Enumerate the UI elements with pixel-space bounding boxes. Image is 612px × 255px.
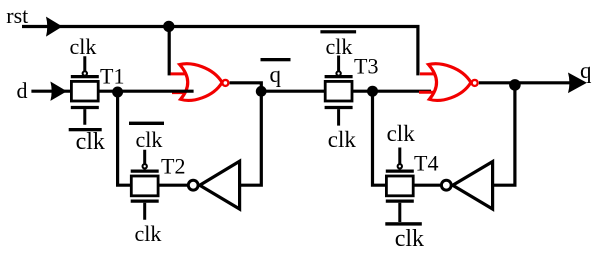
wire rst horizontal + bend down to U2 top input xyxy=(22,27,418,76)
svg-text:T3: T3 xyxy=(354,54,378,79)
svg-text:q: q xyxy=(580,58,592,83)
svg-text:clk: clk xyxy=(395,226,424,252)
wire rst junction down to U1 top input xyxy=(168,27,171,76)
svg-text:clk: clk xyxy=(328,127,357,152)
svg-text:clk: clk xyxy=(76,129,105,155)
node qbar junction xyxy=(256,86,267,97)
svg-text:clk: clk xyxy=(326,34,353,59)
transmission gate T3 xyxy=(325,56,353,126)
clock label clk-bar (T4 bottom) xyxy=(385,222,424,252)
NOR gate U1 body xyxy=(180,64,223,101)
clock label clk-bar (T2 top) xyxy=(129,122,164,152)
svg-text:q: q xyxy=(270,62,282,87)
wire U2 output to q arrow xyxy=(479,81,584,84)
wire T3 output to U2 lower input xyxy=(352,90,431,93)
svg-text:T1: T1 xyxy=(100,64,124,89)
clock label clk-bar (T1 bottom) xyxy=(69,128,105,155)
wire qbar to T3 xyxy=(261,90,325,93)
inverter X2 bubble xyxy=(441,180,451,190)
transmission gate T2 xyxy=(131,150,159,220)
wire d input xyxy=(31,90,71,93)
signal arrow (rst) xyxy=(46,17,62,37)
inverter X1 triangle xyxy=(200,161,240,209)
NOR gate U1 input stubs xyxy=(171,74,188,93)
junction at T3 output xyxy=(367,86,378,97)
svg-text:clk: clk xyxy=(135,221,162,246)
inverter X2 triangle xyxy=(453,162,493,209)
NOR gate U2 body xyxy=(428,64,471,101)
signal arrow (q) xyxy=(568,73,587,94)
wire from T1 junction down and into T2 xyxy=(118,91,132,185)
NOR gate U2 output bubble xyxy=(472,80,478,86)
svg-text:T2: T2 xyxy=(161,153,185,178)
svg-text:clk: clk xyxy=(136,127,163,152)
wire T1 output to U1 lower input xyxy=(98,90,193,93)
wire from T3 junction down into T4 xyxy=(373,91,387,185)
clock label clk-bar (T3 top) xyxy=(320,30,356,59)
inverter X1 bubble xyxy=(188,180,198,190)
junction at q output xyxy=(509,79,521,91)
wire U1 output, qbar vertical, into inverter X1 xyxy=(230,83,262,185)
junction on rst net xyxy=(163,21,174,32)
svg-text:clk: clk xyxy=(70,34,97,59)
svg-text:T4: T4 xyxy=(414,151,438,176)
wire T4 output to inverter X2 bubble xyxy=(413,184,440,187)
svg-text:rst: rst xyxy=(6,3,28,28)
svg-text:d: d xyxy=(17,78,28,103)
wire T2 output to inverter X1 bubble xyxy=(158,184,187,187)
signal arrow (d) xyxy=(50,82,67,101)
svg-text:clk: clk xyxy=(387,121,416,146)
transmission gate T1 xyxy=(71,56,99,125)
wire q feedback down into inverter X2 xyxy=(493,83,515,185)
transmission gate T4 xyxy=(386,148,414,223)
NOR gate U1 output bubble xyxy=(222,80,228,86)
net label qbar xyxy=(261,58,291,87)
NOR gate U2 input stubs xyxy=(419,74,435,92)
junction at T1 output xyxy=(112,87,123,98)
